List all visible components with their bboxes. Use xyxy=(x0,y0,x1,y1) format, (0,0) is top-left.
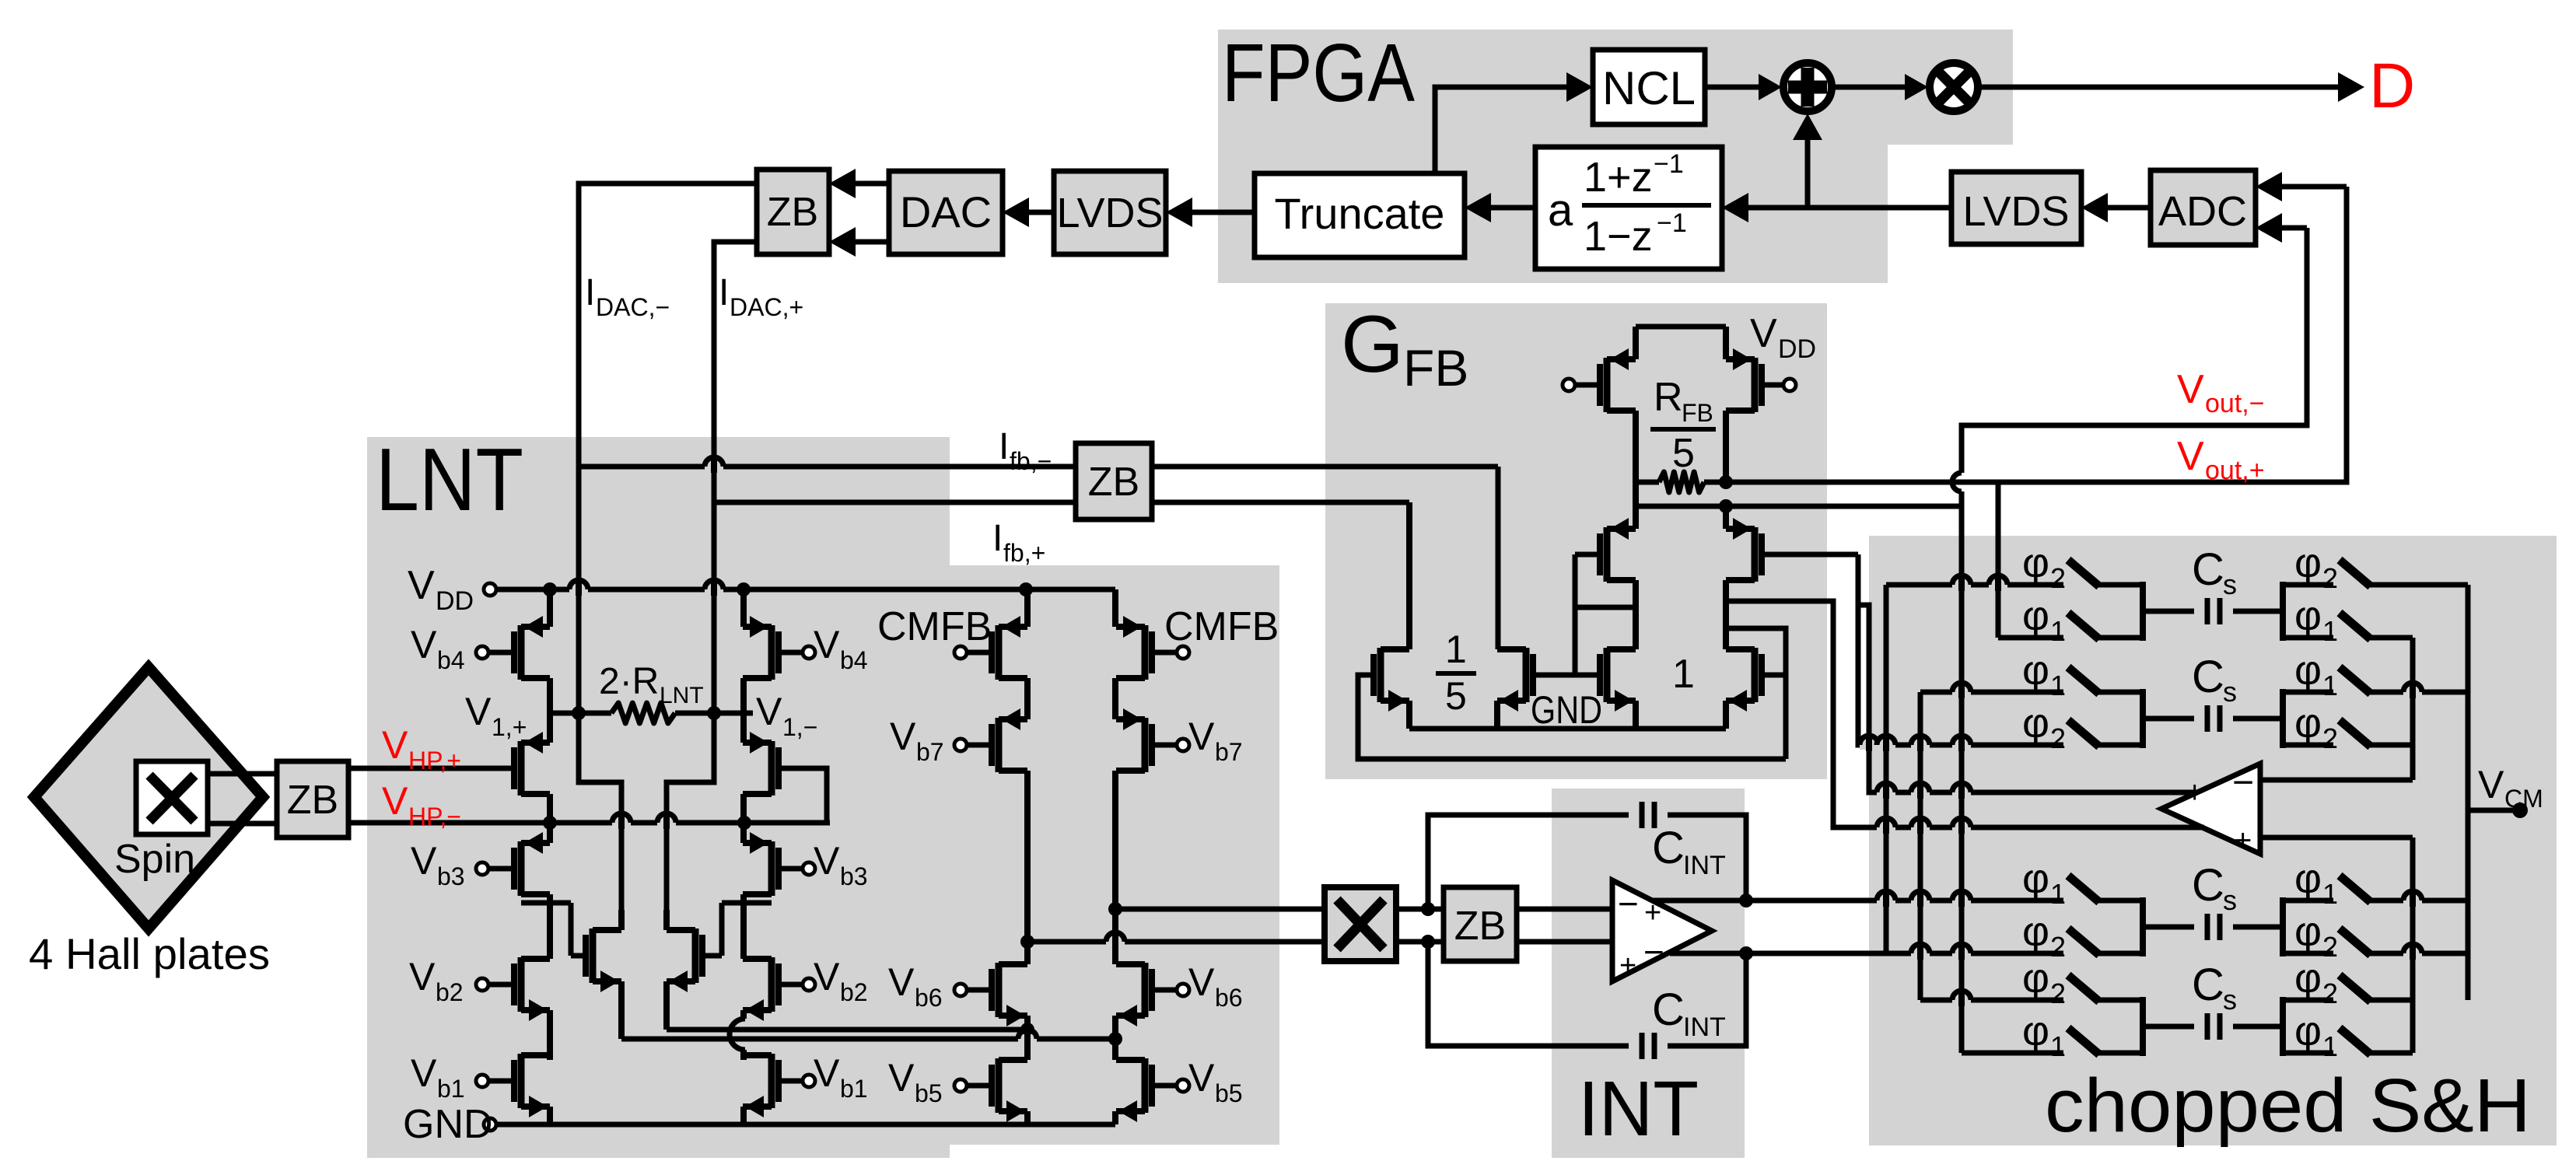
svg-text:1: 1 xyxy=(2322,670,2338,701)
svg-text:−1: −1 xyxy=(1657,208,1687,238)
svg-text:V: V xyxy=(411,839,437,883)
svg-text:HP,+: HP,+ xyxy=(408,747,461,775)
svg-text:−1: −1 xyxy=(1654,149,1684,179)
svg-text:I: I xyxy=(999,426,1009,467)
svg-text:ZB: ZB xyxy=(1088,460,1139,505)
svg-text:−: − xyxy=(2184,806,2206,847)
svg-text:b3: b3 xyxy=(437,862,465,890)
svg-text:chopped S&H: chopped S&H xyxy=(2045,1063,2531,1148)
capacitor Cs B3 xyxy=(2143,925,2194,930)
svg-text:5: 5 xyxy=(1445,674,1467,718)
svg-text:2: 2 xyxy=(2050,931,2066,963)
switch B4 right 1 xyxy=(2283,1051,2333,1056)
wire gfb feed v0 down xyxy=(1858,554,1882,745)
junction VHP- at M2/M3 xyxy=(543,816,557,830)
adder node sum xyxy=(1783,63,1832,111)
wire stage2 output upper to chopper xyxy=(1115,907,1325,912)
wire NCL to adder xyxy=(1705,85,1771,90)
capacitor C_INT bottom xyxy=(1428,942,1629,1046)
svg-text:V: V xyxy=(411,623,437,666)
svg-text:V: V xyxy=(890,715,916,758)
transistor M12 mid-right NMOS xyxy=(692,928,699,983)
transistor M14 Vb7 PMOS xyxy=(996,718,1003,772)
transistor M18 Vb7 PMOS right xyxy=(1142,718,1149,772)
junction V1+ node xyxy=(572,706,586,720)
wire right inner rail upper xyxy=(2410,638,2416,780)
svg-text:b4: b4 xyxy=(840,646,868,674)
svg-text:φ: φ xyxy=(2022,540,2049,586)
wire S&H opamp output top xyxy=(2260,778,2413,783)
svg-text:DAC,−: DAC,− xyxy=(596,293,670,321)
node bar B3 right xyxy=(2280,897,2286,956)
switch B2 right 1 xyxy=(2283,690,2333,695)
svg-text:C: C xyxy=(1652,823,1685,873)
svg-text:V: V xyxy=(382,723,408,767)
junction V1- node xyxy=(707,706,721,720)
transistor M8 Vb3 PMOS right xyxy=(768,841,775,896)
transistor M9 Vb2 NMOS right xyxy=(768,957,775,1012)
wire LVDS1 to DAC xyxy=(1029,210,1054,215)
wire mid cascode node xyxy=(1636,504,1962,509)
svg-text:2·R: 2·R xyxy=(599,661,659,702)
region LNT second stage background xyxy=(950,565,1279,1145)
wire GND rail xyxy=(490,1122,1115,1128)
node bar B4 right xyxy=(2280,997,2286,1056)
wire X to ZB upper xyxy=(1396,907,1444,912)
svg-text:1: 1 xyxy=(1445,628,1467,671)
op-amp INT xyxy=(1612,880,1712,981)
svg-text:V: V xyxy=(756,690,782,733)
svg-text:out,+: out,+ xyxy=(2205,456,2265,485)
wire gfb mid-left gate leg xyxy=(1575,552,1601,558)
svg-text:1−z: 1−z xyxy=(1584,213,1653,260)
capacitor Cs B4 xyxy=(2143,1024,2194,1030)
wire I_fb,- down to M26 drain xyxy=(1496,467,1501,649)
node bar B4 left xyxy=(2140,997,2146,1056)
wire feed vb xyxy=(1918,692,1923,1000)
svg-text:Spin: Spin xyxy=(114,837,195,882)
region FPGA background xyxy=(1218,30,2013,283)
transistor M11 mid-left NMOS xyxy=(590,928,597,983)
wire INT output lower xyxy=(1670,951,1882,956)
svg-text:C: C xyxy=(2192,960,2224,1010)
block LVDS right xyxy=(1951,172,2081,244)
svg-text:1: 1 xyxy=(2050,670,2066,701)
wire VDD rail xyxy=(490,587,1115,593)
svg-text:2: 2 xyxy=(2050,562,2066,594)
wire gfb output to S&H opamp minus xyxy=(1726,601,2203,827)
wire V_CM stub xyxy=(2468,808,2518,813)
svg-text:V: V xyxy=(1188,715,1215,758)
svg-text:+: + xyxy=(2186,775,2203,810)
svg-text:CM: CM xyxy=(2504,785,2543,813)
transistor M19 Vb6 NMOS right xyxy=(1142,963,1149,1017)
wire V_out,- up and right xyxy=(1962,228,2307,506)
svg-text:φ: φ xyxy=(2294,855,2322,902)
junction R_FB output node xyxy=(1719,475,1733,489)
svg-text:1: 1 xyxy=(1672,652,1695,697)
svg-text:φ: φ xyxy=(2022,908,2049,955)
svg-text:V: V xyxy=(814,623,840,666)
wire gfb M28 diode loop xyxy=(1726,628,1786,759)
svg-text:G: G xyxy=(1341,299,1404,390)
wire INT output upper xyxy=(1653,898,1882,904)
svg-text:φ: φ xyxy=(2022,855,2049,902)
svg-text:1: 1 xyxy=(2322,878,2338,910)
svg-text:1: 1 xyxy=(2050,1030,2066,1062)
region LNT background xyxy=(367,437,950,1158)
wire DAC to ZB lower xyxy=(856,240,889,245)
transistor M20 Vb5 NMOS right xyxy=(1142,1058,1149,1113)
svg-text:V: V xyxy=(888,1056,915,1100)
svg-text:R: R xyxy=(1654,375,1683,420)
svg-text:FPGA: FPGA xyxy=(1222,27,1415,119)
svg-text:fb,+: fb,+ xyxy=(1003,539,1045,567)
svg-text:LNT: LNT xyxy=(376,431,523,530)
svg-text:1+z: 1+z xyxy=(1584,154,1653,201)
transistor M23 gfb mid-left PMOS xyxy=(1604,527,1611,582)
svg-text:FB: FB xyxy=(1403,339,1468,397)
region G_FB background xyxy=(1325,303,1827,779)
svg-text:φ: φ xyxy=(2294,955,2322,1002)
wire V1- to mid-right drain xyxy=(667,713,714,910)
svg-text:φ: φ xyxy=(2022,647,2049,694)
wire V_out,+ run xyxy=(1726,187,2347,482)
transistor M13 CMFB PMOS xyxy=(996,625,1003,680)
wire I_fb,+ from node to G_FB xyxy=(714,500,1409,505)
wire gfb M25 diode loop xyxy=(1358,675,1786,759)
node bar B1 right xyxy=(2280,582,2286,641)
svg-text:b6: b6 xyxy=(915,984,943,1012)
junction VDD rail at T1 xyxy=(543,582,557,596)
wire gfb feed to S&H opamp plus xyxy=(1858,605,2197,792)
block ZB feedback xyxy=(1076,443,1152,519)
wire spin to ZB upper xyxy=(208,771,277,777)
svg-text:Truncate: Truncate xyxy=(1275,189,1445,238)
junction VHP- at mid drains xyxy=(737,816,751,830)
svg-text:V: V xyxy=(1188,960,1215,1004)
block chopper X xyxy=(1325,887,1396,961)
block Truncate xyxy=(1255,173,1465,257)
wire S&H opamp output bottom xyxy=(2260,835,2413,841)
svg-text:φ: φ xyxy=(2022,955,2049,1002)
wire gfb source rail xyxy=(1409,726,1726,732)
transistor M17 CMFB PMOS right xyxy=(1142,625,1149,680)
svg-text:b5: b5 xyxy=(1215,1079,1243,1107)
svg-text:b2: b2 xyxy=(436,978,464,1006)
wire M3 bottom to mid gate branch xyxy=(521,900,571,906)
node bar B1 left xyxy=(2140,582,2146,641)
wire right outer rail xyxy=(2466,585,2471,1000)
svg-text:φ: φ xyxy=(2294,647,2322,694)
switch B3 right 1 xyxy=(2283,898,2333,904)
svg-text:b6: b6 xyxy=(1215,984,1243,1012)
wire X to ZB lower xyxy=(1396,939,1444,945)
svg-text:INT: INT xyxy=(1683,1012,1726,1042)
svg-text:2: 2 xyxy=(2322,931,2338,963)
resistor R_FB/5 xyxy=(1636,480,1659,485)
svg-text:CMFB: CMFB xyxy=(1164,604,1279,649)
svg-text:V: V xyxy=(465,690,492,733)
svg-text:V: V xyxy=(2478,763,2504,806)
transistor M10 Vb1 NMOS right xyxy=(768,1054,775,1108)
wire LVDS2 to z-filter xyxy=(1748,205,1951,211)
wire feed va xyxy=(1884,585,1889,953)
svg-text:V: V xyxy=(409,955,436,998)
wire Truncate to NCL with arrow xyxy=(1435,87,1580,173)
transistor M24 gfb mid-right PMOS xyxy=(1752,527,1759,582)
svg-text:fb,−: fb,− xyxy=(1010,447,1052,475)
svg-text:V: V xyxy=(2177,367,2204,412)
svg-text:φ: φ xyxy=(2022,700,2049,747)
svg-text:2: 2 xyxy=(2050,722,2066,754)
switch B2 left 1 xyxy=(1920,690,2063,695)
wire VHP- node xyxy=(348,820,830,826)
svg-text:φ: φ xyxy=(2294,908,2322,955)
svg-text:b7: b7 xyxy=(1215,738,1243,766)
block DAC xyxy=(889,171,1003,254)
wire hop marks xyxy=(569,457,2422,1050)
svg-text:b1: b1 xyxy=(437,1075,465,1103)
svg-text:φ: φ xyxy=(2022,593,2049,639)
svg-text:CMFB: CMFB xyxy=(877,604,992,649)
capacitor Cs B1 xyxy=(2143,609,2194,614)
svg-text:out,−: out,− xyxy=(2205,389,2265,418)
switch B4 left 2 xyxy=(1920,998,2063,1003)
transistor M25 gfb 1/5 left NMOS xyxy=(1377,648,1384,702)
transistor M26 gfb 1/5 right NMOS xyxy=(1523,648,1530,702)
svg-text:φ: φ xyxy=(2022,1008,2049,1054)
wire Truncate to LVDS1 xyxy=(1192,210,1255,215)
wire feed vd xyxy=(1996,482,2001,638)
svg-text:φ: φ xyxy=(2294,540,2322,586)
svg-text:−: − xyxy=(2232,762,2254,803)
svg-text:2: 2 xyxy=(2322,977,2338,1009)
transistor M2 VHP+ PMOS xyxy=(518,741,525,796)
svg-text:b1: b1 xyxy=(840,1075,868,1103)
wire z-filter to Truncate xyxy=(1491,205,1535,211)
wire output Q to CMFB right column xyxy=(621,1037,1115,1042)
svg-text:I: I xyxy=(719,272,729,313)
switch B4 right 2 xyxy=(2283,998,2333,1003)
capacitor C_INT top xyxy=(1428,815,1629,909)
svg-text:1: 1 xyxy=(2050,615,2066,647)
svg-text:C: C xyxy=(1652,984,1685,1035)
transistor M4 Vb2 NMOS xyxy=(518,957,525,1012)
svg-text:V: V xyxy=(814,839,840,883)
svg-text:INT: INT xyxy=(1683,851,1726,880)
transistor M5 Vb1 NMOS xyxy=(518,1054,525,1108)
svg-text:s: s xyxy=(2223,984,2237,1016)
svg-text:V: V xyxy=(814,1051,840,1095)
wire Vout+ into ADC upper xyxy=(2282,184,2347,190)
svg-text:2: 2 xyxy=(2050,977,2066,1009)
wire ZB to INT opamp lower xyxy=(1517,939,1612,945)
transistor M6 Vb4 PMOS right xyxy=(768,625,775,680)
svg-text:NCL: NCL xyxy=(1602,62,1696,114)
svg-text:ZB: ZB xyxy=(287,778,338,823)
node bar B2 left xyxy=(2140,689,2146,748)
svg-text:φ: φ xyxy=(2294,593,2322,639)
wire feed vc xyxy=(1959,506,1965,1053)
block ADC xyxy=(2151,170,2256,245)
transistor M7 diode PMOS right xyxy=(768,741,775,796)
wire ADC to LVDS2 xyxy=(2108,205,2151,211)
region INT background xyxy=(1552,789,1745,1158)
wire M8 bottom to mid gate branch right xyxy=(722,900,772,906)
svg-text:1: 1 xyxy=(2322,1030,2338,1062)
switch B1 right 1 xyxy=(2283,635,2333,641)
svg-text:s: s xyxy=(2223,676,2237,708)
node bar B2 right xyxy=(2280,689,2286,748)
resistor 2R_LNT xyxy=(611,703,675,723)
svg-text:+: + xyxy=(1619,949,1636,982)
switch B2 left 2 xyxy=(1882,743,2063,748)
svg-text:−: − xyxy=(1618,883,1639,924)
region Spin diamond fill xyxy=(34,667,263,928)
svg-text:C: C xyxy=(2192,544,2224,595)
svg-text:2: 2 xyxy=(2322,562,2338,594)
block LVDS left xyxy=(1054,171,1166,254)
svg-text:LVDS: LVDS xyxy=(1056,190,1163,236)
Hall plate diamond xyxy=(34,667,263,928)
svg-text:GND: GND xyxy=(1531,688,1602,732)
transistor M22 gfb top-right PMOS xyxy=(1752,358,1759,412)
wire ZB to INT opamp upper xyxy=(1517,907,1612,912)
svg-text:1,+: 1,+ xyxy=(492,713,527,741)
wire I_DAC,- vertical xyxy=(579,184,757,713)
svg-text:I: I xyxy=(585,272,595,313)
wire spin to ZB lower xyxy=(208,821,277,827)
svg-text:−: − xyxy=(1643,932,1664,972)
switch B3 left 1 xyxy=(1882,898,2063,904)
node bar B3 left xyxy=(2140,897,2146,956)
svg-text:+: + xyxy=(2234,824,2252,858)
wire I_DAC,+ vertical xyxy=(714,242,757,714)
svg-text:LNT: LNT xyxy=(660,683,704,708)
switch B3 right 2 xyxy=(2283,951,2333,956)
svg-text:φ: φ xyxy=(2294,1008,2322,1054)
svg-text:b3: b3 xyxy=(840,862,868,890)
svg-text:1,−: 1,− xyxy=(782,713,817,741)
capacitor Cs B2 xyxy=(2143,716,2194,722)
block ZB chopper xyxy=(1444,887,1517,961)
svg-text:b5: b5 xyxy=(915,1079,943,1107)
svg-text:s: s xyxy=(2223,568,2237,600)
svg-text:a: a xyxy=(1548,185,1573,236)
svg-text:V: V xyxy=(888,960,915,1004)
wire feedback up into adder xyxy=(1805,129,1811,208)
svg-text:V: V xyxy=(814,955,840,998)
switch B1 right 2 xyxy=(2283,582,2333,588)
switch B1 left 1 xyxy=(1998,635,2063,641)
wire multiplier to D output xyxy=(1977,85,2354,90)
svg-text:b4: b4 xyxy=(437,646,465,674)
wire gfb vdd rail xyxy=(1636,324,1726,330)
svg-text:LVDS: LVDS xyxy=(1962,188,2069,235)
junction VDD rail at CMFB left column xyxy=(1019,582,1033,596)
transistor M15 Vb6 NMOS xyxy=(996,963,1003,1017)
switch B3 left 2 xyxy=(1882,951,2063,956)
svg-text:D: D xyxy=(2369,51,2415,121)
wire DAC to ZB upper xyxy=(856,181,889,187)
switch B4 left 1 xyxy=(1962,1051,2063,1056)
block ZB dac xyxy=(757,170,829,254)
svg-text:I: I xyxy=(992,518,1003,559)
wire gfb mid-right gate to feed xyxy=(1762,552,1858,558)
svg-text:DD: DD xyxy=(1778,334,1816,364)
wire right inner rail lower xyxy=(2410,838,2416,1053)
svg-text:2: 2 xyxy=(2322,722,2338,754)
svg-text:s: s xyxy=(2223,884,2237,916)
junction VDD rail at right column xyxy=(737,582,751,596)
block NCL U1 xyxy=(1593,50,1705,124)
op-amp S&H xyxy=(2161,764,2260,854)
switch B2 right 2 xyxy=(2283,743,2333,748)
svg-text:V: V xyxy=(2177,434,2204,479)
svg-text:V: V xyxy=(1750,311,1777,356)
block spin X xyxy=(136,761,208,834)
transistor M1 Vb4 PMOS xyxy=(518,625,525,680)
svg-text:ZB: ZB xyxy=(767,190,818,235)
block ZB hall xyxy=(277,761,348,838)
transistor M21 gfb top-left PMOS xyxy=(1604,358,1611,412)
svg-text:b7: b7 xyxy=(916,738,944,766)
svg-text:1: 1 xyxy=(2050,878,2066,910)
svg-text:C: C xyxy=(2192,652,2224,702)
svg-text:ZB: ZB xyxy=(1454,904,1506,949)
wire I_fb,- from node to G_FB xyxy=(579,464,1498,470)
switch B1 left 2 xyxy=(1886,582,2063,588)
wire gfb gate bridge xyxy=(1533,673,1600,678)
transistor M27 gfb unity-left NMOS xyxy=(1604,648,1611,702)
svg-text:DD: DD xyxy=(436,586,474,616)
svg-text:ADC: ADC xyxy=(2158,188,2247,235)
svg-text:HP,−: HP,− xyxy=(408,803,461,831)
svg-text:V: V xyxy=(382,779,408,823)
wire adder to multiplier xyxy=(1831,85,1917,90)
svg-text:b2: b2 xyxy=(840,978,868,1006)
block z-domain filter xyxy=(1535,147,1722,269)
transistor M16 Vb5 NMOS xyxy=(996,1058,1003,1113)
svg-text:V: V xyxy=(408,563,435,608)
svg-text:1: 1 xyxy=(2322,615,2338,647)
wire Vout- into ADC lower xyxy=(2282,226,2307,231)
svg-text:V: V xyxy=(1188,1056,1215,1100)
region chopped S&H background xyxy=(1869,536,2557,1145)
svg-text:GND: GND xyxy=(403,1102,493,1147)
wire stage2 output lower to chopper xyxy=(1027,939,1325,945)
svg-text:DAC: DAC xyxy=(900,187,992,236)
transistor M28 gfb unity-right NMOS xyxy=(1752,648,1759,702)
transistor M3 Vb3 PMOS-style xyxy=(518,841,525,896)
svg-text:φ: φ xyxy=(2294,700,2322,747)
svg-text:DAC,+: DAC,+ xyxy=(730,293,803,321)
svg-text:5: 5 xyxy=(1672,431,1695,476)
svg-text:INT: INT xyxy=(1578,1065,1699,1152)
svg-text:C: C xyxy=(2192,860,2224,911)
wire V1+ to mid-left drain xyxy=(579,713,621,910)
wire output P to CMFB left column xyxy=(667,1027,1027,1033)
svg-text:FB: FB xyxy=(1682,399,1713,427)
svg-text:4 Hall plates: 4 Hall plates xyxy=(29,929,270,978)
wire V1 node xyxy=(550,711,611,716)
multiplier node xyxy=(1930,63,1978,111)
svg-text:V: V xyxy=(411,1051,437,1095)
